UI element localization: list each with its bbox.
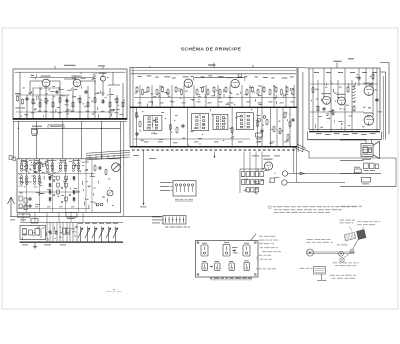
potentiometer P1 — [78, 227, 83, 242]
caption PRISE HP — [175, 199, 179, 200]
cluster boxes 2 — [354, 169, 361, 173]
labels tubes box C — [322, 92, 331, 95]
label gauche — [307, 238, 313, 241]
mid rail lower box B — [134, 138, 250, 140]
rails box D — [18, 173, 95, 175]
label 1484 above box B — [208, 64, 215, 65]
box A top inner rail — [15, 71, 126, 73]
tube V8 (output EL84) — [364, 86, 374, 96]
value labels upper box B — [158, 92, 160, 95]
upper labels box A — [81, 77, 86, 79]
coil symbols box D — [19, 173, 24, 175]
wire right mid 1 — [340, 159, 364, 161]
value labels box E zone — [55, 232, 57, 235]
wire box A right down — [123, 121, 125, 216]
cluster boxes 3 — [361, 177, 370, 182]
switch bank mid-right — [242, 172, 245, 177]
connector socket PRISE HP — [173, 181, 196, 197]
IF transformer T3 — [213, 114, 228, 129]
wire box A left down — [13, 121, 15, 159]
label cadran — [300, 267, 305, 270]
block box F (push-button panel) — [196, 240, 259, 277]
curly brace — [257, 257, 259, 263]
value labels box D — [65, 178, 67, 181]
small circles box D — [96, 203, 99, 206]
pulley mid — [339, 251, 344, 256]
small box — [270, 178, 275, 183]
drops box D to rails — [22, 213, 24, 223]
tube V4 (EF41) — [184, 79, 192, 87]
connector socket COMPTEUR — [163, 216, 186, 225]
tuning capacitor drum — [344, 230, 366, 243]
wire grid box A — [19, 72, 21, 119]
pulley small — [350, 249, 354, 253]
label cord top2 — [357, 220, 361, 223]
wires box B right edge down — [293, 147, 295, 174]
pulley big — [307, 249, 314, 256]
pot labels — [78, 222, 83, 225]
long wires to right — [288, 173, 360, 175]
potentiometer P6 — [113, 227, 118, 242]
screws box F — [197, 242, 199, 244]
potentiometer P3 — [92, 227, 97, 242]
labels upper box B — [138, 102, 142, 105]
tube V2 (ECC85 b) — [73, 79, 81, 87]
upper wires box B — [139, 85, 141, 107]
wire V2 anode — [81, 80, 95, 82]
terminal dashes under box B bus — [132, 149, 135, 150]
coupling caps mid box A — [55, 90, 58, 94]
components box C — [312, 88, 314, 92]
caption COMPTEUR — [165, 227, 168, 228]
box A bottom chassis bus — [13, 118, 127, 120]
labels below box B right — [252, 155, 259, 158]
value labels lower box B — [138, 116, 139, 117]
potentiometer P5 — [106, 227, 111, 242]
tube V1 (ECC85 a) — [42, 79, 50, 87]
outer lower edge box C — [308, 139, 382, 141]
bottom labels box C — [316, 132, 322, 135]
link box B to box C — [298, 67, 309, 70]
stub above box C — [336, 63, 338, 69]
long wire lower right — [309, 157, 396, 159]
key small K4 — [202, 263, 208, 270]
wire right mid 3 — [340, 186, 396, 188]
grid resistors row box A — [32, 99, 34, 103]
key small K7 — [244, 262, 250, 270]
oscillator section box D — [94, 166, 96, 170]
block box B (HF / FI unit) — [130, 68, 297, 147]
PU labels — [10, 219, 15, 222]
wire from box B down — [143, 151, 145, 206]
diode arrow — [300, 172, 305, 175]
top label row box C — [314, 71, 319, 74]
label V11 — [264, 158, 273, 161]
box B bottom bus — [130, 146, 297, 148]
connector left under box D — [18, 214, 31, 217]
pointer stem — [321, 274, 323, 280]
tuning indicator tube V10 — [112, 163, 121, 172]
stubs above box A — [54, 66, 56, 69]
pulley lower — [340, 258, 344, 262]
labels lower box B — [144, 141, 149, 144]
stub below box B mid — [214, 152, 216, 159]
wire V1-V2 coupling — [50, 80, 60, 82]
component below box A — [32, 130, 38, 135]
mains wires right of box C — [380, 71, 386, 73]
wire speaker hangers — [365, 140, 367, 144]
switch bank outline — [240, 168, 264, 170]
switch matrix second row groups — [21, 176, 23, 178]
box B mid divider bus — [130, 106, 297, 108]
IF transformer T4 — [236, 113, 253, 130]
component value labels box A — [114, 99, 115, 100]
diagonal wires to lower right — [297, 144, 306, 149]
label cord top1 — [340, 219, 344, 222]
top rail bottom-left — [20, 221, 123, 223]
mixer circle box D — [107, 190, 113, 196]
key K3 — [243, 245, 250, 256]
top label row inside box B — [138, 75, 142, 78]
label pointer — [330, 274, 335, 277]
wires box C — [312, 68, 314, 132]
lower wires box B — [135, 107, 137, 147]
key K1 — [201, 245, 208, 256]
resistor cluster left input — [17, 96, 19, 100]
value labels switch bank — [242, 176, 243, 177]
junction dots — [18, 128, 19, 129]
label speaker — [362, 158, 371, 161]
wire drop right — [308, 152, 310, 159]
box C heavy bottom line — [309, 131, 380, 133]
wires right of box E — [46, 223, 48, 243]
IF transformer T2 — [192, 114, 209, 131]
wire top right margin — [380, 62, 389, 64]
labels right of box F mid — [260, 246, 263, 249]
value labels box C — [316, 98, 318, 101]
wires from box B to switch bank — [243, 152, 245, 172]
corner comps left of box D — [9, 156, 12, 160]
tube V6 (rectifier EZ80) — [323, 96, 331, 104]
tube V9 (magic eye) — [364, 116, 374, 126]
lower components box B — [169, 125, 171, 129]
footnote text block — [269, 206, 272, 208]
tube V5 (EF41) — [231, 79, 239, 87]
box B inner left rail — [132, 68, 134, 148]
cathode rail box A — [16, 111, 115, 113]
corner components box B — [136, 113, 138, 117]
labels right of box F bottom — [256, 267, 262, 270]
cable drops — [89, 155, 91, 159]
pin labels PRISE HP — [160, 181, 171, 184]
box A second rail — [30, 77, 95, 79]
label V2 — [72, 75, 82, 78]
connector under box D — [66, 213, 77, 218]
arrow row2 — [210, 266, 213, 268]
rail box C — [310, 83, 378, 85]
tone caps cluster — [63, 228, 66, 234]
dropper wires to box D — [17, 121, 19, 159]
box B inner top rails — [131, 69, 296, 71]
output transformer in speaker — [363, 147, 368, 153]
label above box C — [334, 61, 342, 62]
dial cord line — [307, 251, 355, 253]
wire into box F top — [251, 234, 257, 240]
labels box D — [21, 160, 25, 163]
key small K6 — [229, 263, 235, 270]
tube V3 top cap — [101, 76, 106, 81]
labels under components box A — [31, 111, 35, 114]
ground stub — [34, 242, 36, 246]
tube V11 — [264, 162, 272, 170]
label poulie haut — [337, 243, 340, 246]
cable harness D to B — [86, 150, 130, 153]
label above box A — [64, 65, 76, 66]
filter cluster right — [364, 163, 369, 169]
loudspeaker LS — [361, 144, 373, 157]
left lower cluster box D — [19, 196, 22, 201]
block box C (power supply + output) — [309, 68, 380, 130]
bottom bus heavy — [20, 241, 123, 243]
mid rails box A — [16, 94, 70, 96]
upper rail box B — [134, 97, 296, 99]
leader lines cord — [349, 226, 352, 231]
components box E — [23, 229, 27, 236]
diode circles — [282, 171, 287, 176]
key K2 — [223, 244, 230, 256]
V5 top cap — [238, 74, 241, 77]
hatch element box C — [353, 86, 356, 88]
long wire under box D — [10, 215, 162, 217]
anode link wire — [194, 77, 245, 79]
wire V1 anode — [30, 80, 42, 82]
label mid wire — [140, 206, 147, 209]
switch bank row3 — [246, 188, 249, 192]
right section components box B — [284, 113, 286, 117]
middle dense stack box D — [49, 176, 51, 180]
label V1 — [41, 75, 51, 78]
cable bus below box A — [31, 127, 121, 129]
cord diagonals — [353, 239, 359, 250]
wire top feed — [112, 72, 114, 85]
pin labels COMPTEUR — [152, 216, 161, 219]
tiny caption right — [341, 206, 346, 207]
label poulie de — [333, 261, 338, 264]
wires box D — [26, 159, 28, 213]
antenna — [10, 197, 12, 216]
upper component rows box B — [136, 87, 138, 91]
leader labels right of box F — [259, 235, 263, 238]
caption under box F — [210, 278, 213, 279]
bus ticks — [22, 242, 23, 243]
dial scale box — [314, 267, 326, 275]
detector cluster box B — [257, 118, 260, 121]
tube V7 — [338, 97, 346, 105]
arrow between keys — [232, 250, 236, 252]
connector label C.A.F. — [32, 126, 42, 127]
potentiometer P4 — [99, 227, 104, 242]
label V3 — [99, 72, 107, 75]
wire right column — [297, 68, 299, 153]
potentiometer P2 — [85, 227, 90, 242]
svg-text:— 7 —: — 7 — — [107, 289, 122, 295]
IF transformer T1 — [144, 116, 162, 131]
switch matrix column groups — [21, 163, 23, 165]
wire right mid 2 — [340, 173, 381, 175]
block box A (audio amplifier) — [13, 69, 127, 120]
block box E (filter) — [20, 226, 46, 240]
labels under bus — [22, 244, 28, 247]
wire bus to speaker — [340, 139, 366, 141]
block box D (keyboard switch unit) — [17, 159, 121, 213]
labels below box B left — [133, 154, 139, 157]
stub above box B — [213, 63, 215, 68]
key small K5 — [215, 263, 221, 270]
